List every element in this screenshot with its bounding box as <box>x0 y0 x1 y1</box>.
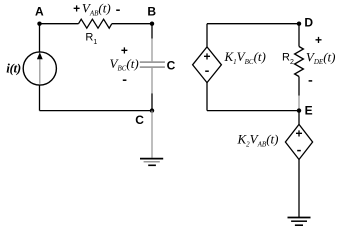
wire top D <box>207 23 299 25</box>
wire bottom to E <box>207 110 299 112</box>
dependent source K1 V_BC(t) <box>193 47 222 83</box>
node B <box>150 22 154 26</box>
svg-text:C: C <box>167 58 176 72</box>
wire E down <box>298 111 300 125</box>
node D <box>297 22 301 26</box>
wire bottom A-C <box>40 110 153 112</box>
dependent source K2 V_AB(t) <box>285 124 312 159</box>
svg-text:B: B <box>147 5 156 19</box>
wire cap to C <box>151 93 153 110</box>
svg-text:i(t): i(t) <box>6 60 21 75</box>
current source i(t) <box>23 52 56 85</box>
wire source K1 down <box>206 83 208 111</box>
wire B down <box>151 24 153 39</box>
resistor R2 <box>295 47 304 77</box>
svg-text:K2VAB(t): K2VAB(t) <box>237 132 279 149</box>
ground (right) <box>288 217 311 219</box>
node C <box>150 108 154 112</box>
ground (left) <box>151 111 153 158</box>
svg-text:C: C <box>135 113 144 127</box>
wire A down to source <box>39 24 41 52</box>
svg-text:+: + <box>73 1 80 15</box>
resistor R1 <box>79 19 112 28</box>
node A <box>37 22 41 26</box>
svg-text:+: + <box>295 127 302 141</box>
wire R1 to B <box>112 23 152 25</box>
wire A to R1 <box>40 23 79 25</box>
node E <box>297 108 301 112</box>
capacitor C <box>151 39 153 62</box>
svg-text:D: D <box>304 15 313 29</box>
wire source K2 to ground <box>298 160 300 218</box>
svg-text:+: + <box>315 33 322 47</box>
svg-text:A: A <box>35 5 44 19</box>
wire down to source K1 <box>206 24 208 47</box>
wire R2 to E <box>298 77 300 96</box>
wire source down to bottom <box>39 85 41 111</box>
svg-text:+: + <box>203 49 210 63</box>
svg-text:E: E <box>305 103 313 117</box>
wire D down <box>298 24 300 47</box>
